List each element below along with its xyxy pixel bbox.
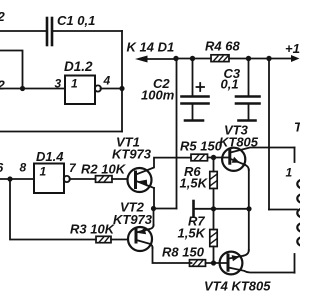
transistor VT1 KT973 — [112, 135, 152, 162]
transformer T1 winding arcs — [297, 180, 302, 246]
transistor VT2 KT973 — [113, 200, 153, 228]
svg-text:3: 3 — [55, 77, 62, 91]
pin 3 label — [55, 77, 62, 91]
junction R6/R7 mid — [211, 206, 216, 211]
wire D1.4 output to R2 — [70, 178, 96, 180]
svg-text:K 14 D1: K 14 D1 — [127, 40, 175, 55]
svg-text:1: 1 — [71, 77, 78, 91]
resistor R4 68 — [211, 55, 229, 62]
transistor VT4 KT805 — [204, 279, 271, 292]
VT1 collector — [136, 158, 191, 175]
arrow +12 — [291, 55, 300, 62]
svg-text:2: 2 — [0, 78, 6, 93]
svg-text:100m: 100m — [141, 88, 175, 103]
node 2 label top-left — [0, 9, 6, 24]
junction rail/C3 — [246, 56, 251, 61]
chassis bar C3 — [239, 119, 256, 122]
svg-text:D1.2: D1.2 — [64, 59, 93, 74]
op-amp gate D1.2 — [65, 76, 95, 105]
label D1.4 — [36, 149, 64, 164]
wire +12 rail — [176, 58, 211, 60]
svg-text:R2 10K: R2 10K — [81, 162, 127, 177]
svg-text:7: 7 — [69, 161, 77, 175]
junction D1.2 output — [119, 86, 124, 91]
wire emitters to rail feed — [154, 208, 177, 210]
transformer T1 label — [294, 120, 303, 135]
junction rail/center-tap feed — [266, 56, 271, 61]
svg-text:KT973: KT973 — [112, 147, 152, 162]
junction R7/VT4 base — [211, 260, 216, 265]
resistor R8 150 — [190, 260, 206, 267]
resistor R5 150 — [191, 154, 208, 161]
wire R5 to VT3 base — [208, 157, 230, 159]
svg-text:2: 2 — [0, 9, 6, 24]
svg-text:R4 68: R4 68 — [205, 39, 240, 54]
svg-text:R5 150: R5 150 — [180, 139, 223, 154]
svg-text:C1 0,1: C1 0,1 — [57, 13, 95, 28]
wire feedback vertical — [121, 31, 123, 132]
VT3 emitter (arrow away, NPN) — [230, 159, 245, 165]
VT3 collector — [230, 148, 294, 153]
wire center-tap feed vertical — [268, 59, 270, 210]
pin 7 label — [69, 161, 77, 175]
svg-text:8: 8 — [20, 161, 27, 175]
VT1 emitter (arrow into base, PNP) — [136, 181, 154, 188]
wire C1 to feedback corner — [54, 30, 123, 32]
wire center-tap horizontal — [269, 209, 297, 211]
wire input to D1.2 — [0, 88, 65, 90]
svg-text:R3 10K: R3 10K — [70, 222, 116, 237]
svg-text:1: 1 — [286, 166, 293, 180]
svg-text:R8 150: R8 150 — [162, 245, 205, 260]
junction input/R3 branch — [7, 176, 12, 181]
pin 4 label — [103, 74, 111, 88]
wire D1.2 output to node — [101, 88, 123, 90]
junction — [20, 86, 25, 91]
svg-text:1,5K: 1,5K — [180, 175, 209, 190]
junction emitters VT1/VT2 — [151, 206, 156, 211]
svg-text:VT4 KT805: VT4 KT805 — [204, 279, 271, 292]
resistor R6 1,5K — [213, 158, 215, 172]
junction emitters VT3/VT4 — [246, 206, 251, 211]
winding 1 label — [286, 166, 293, 180]
chassis bar output — [192, 201, 195, 216]
resistor R3 10K — [96, 236, 111, 242]
wire R2 to VT1 base — [112, 178, 127, 180]
svg-text:6: 6 — [0, 160, 4, 175]
capacitor C1 0,1 — [47, 18, 52, 45]
svg-text:T: T — [294, 120, 300, 135]
VT4 collector — [229, 268, 295, 273]
wire rail after R4 — [229, 58, 293, 60]
gate D1.4 — [34, 164, 64, 194]
capacitor C3 0,1 — [248, 59, 250, 96]
inverter bubble D1.2 — [95, 85, 101, 91]
svg-text:1: 1 — [40, 165, 47, 179]
resistor R2 10K — [96, 176, 113, 183]
junction R5/R6 — [211, 155, 216, 160]
VT2 emitter (arrow into base, PNP) — [136, 225, 153, 233]
wire R8 to VT4 base — [206, 262, 228, 264]
pin 8 label — [20, 161, 27, 175]
resistor R7 1,5K — [213, 209, 215, 230]
inverter bubble D1.4 — [64, 176, 70, 182]
arrow K 14 D1 — [146, 58, 176, 60]
plus sign C2 — [197, 83, 205, 91]
VT4 emitter (arrow away, NPN) — [229, 256, 244, 259]
svg-text:1,5K: 1,5K — [178, 226, 207, 241]
svg-text:KT973: KT973 — [113, 212, 153, 227]
wire left edge to C1 — [0, 30, 46, 32]
wire feedback bottom to left edge — [0, 131, 122, 133]
wire R3 branch vertical — [10, 179, 96, 240]
junction rail/C2 — [190, 56, 195, 61]
capacitor C2 100m — [192, 59, 194, 96]
node 2 label left middle — [0, 78, 6, 93]
transistor VT3 KT805 — [219, 123, 259, 150]
wire stub upper-left — [0, 51, 23, 89]
wire input to D1.4 — [0, 178, 34, 180]
svg-text:4: 4 — [103, 74, 111, 88]
chassis bar C2 — [185, 119, 203, 122]
svg-text:D1.4: D1.4 — [36, 149, 64, 164]
VT2 collector — [136, 240, 152, 248]
svg-text:0,1: 0,1 — [221, 77, 239, 92]
svg-text:+12: +12 — [285, 41, 300, 56]
node 6 label — [0, 160, 4, 175]
wire output node — [194, 208, 250, 210]
wire R3 to VT2 base — [111, 239, 128, 241]
junction rail/emitter feed — [173, 56, 178, 61]
